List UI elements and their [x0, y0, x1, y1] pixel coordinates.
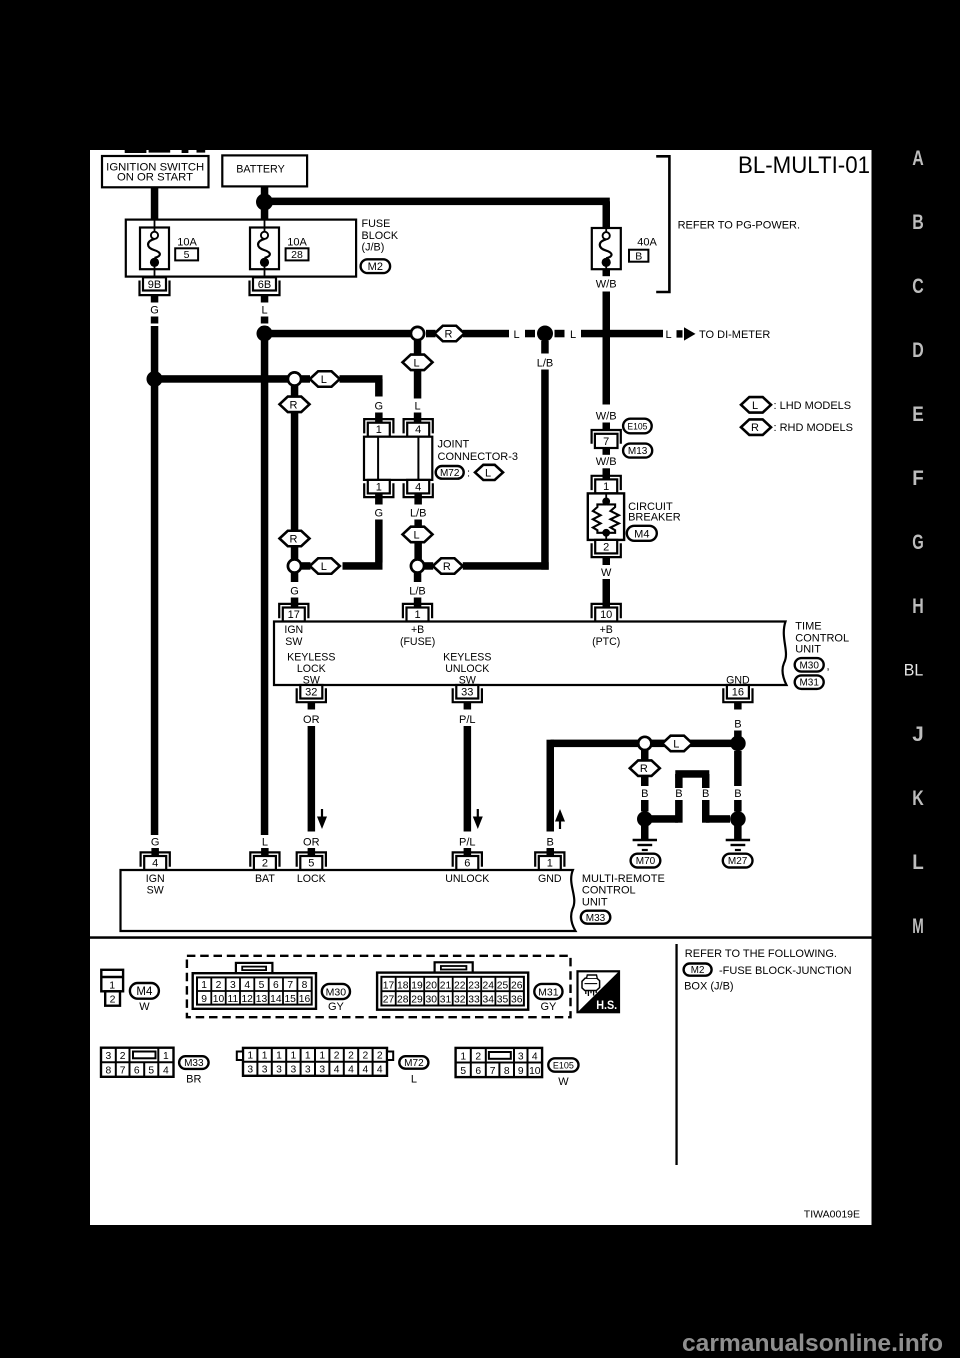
svg-text:13: 13 — [256, 994, 268, 1005]
svg-text:19: 19 — [411, 980, 423, 991]
svg-text:M31: M31 — [799, 678, 819, 689]
svg-text:UNIT: UNIT — [795, 644, 821, 656]
arrow down OR — [317, 809, 327, 829]
svg-text:E: E — [912, 402, 924, 426]
svg-text:3: 3 — [319, 1065, 325, 1076]
hex R gnd — [630, 750, 660, 776]
svg-text:8: 8 — [504, 1066, 510, 1077]
svg-text:35: 35 — [497, 995, 509, 1006]
svg-text:UNLOCK: UNLOCK — [445, 873, 489, 885]
svg-text:M13: M13 — [628, 446, 648, 457]
svg-text:UNLOCK: UNLOCK — [445, 663, 489, 675]
svg-text:L: L — [570, 329, 576, 341]
svg-text:3: 3 — [262, 1065, 268, 1076]
junction G node — [147, 371, 163, 387]
svg-text::: : — [467, 467, 470, 479]
svg-text:L: L — [262, 836, 268, 848]
svg-text:M: M — [912, 914, 924, 938]
fuse 28 10A — [250, 220, 309, 277]
wire RHD bypass left — [291, 386, 299, 560]
connector ref M2 — [361, 259, 391, 273]
wire row battery L to DI-METER — [265, 329, 664, 341]
svg-text:FUSE: FUSE — [362, 218, 391, 230]
svg-text:3: 3 — [230, 980, 236, 991]
wire W to time control unit — [601, 557, 612, 607]
hex L row2 — [310, 371, 340, 387]
svg-text:32: 32 — [305, 687, 317, 699]
svg-text:JOINT: JOINT — [438, 439, 470, 451]
multi-remote control unit pins — [141, 852, 565, 870]
svg-text:10A: 10A — [177, 237, 197, 249]
svg-text:10: 10 — [213, 994, 225, 1005]
circuit breaker pin 2 — [592, 540, 621, 557]
margin index letters — [912, 146, 924, 938]
svg-text:J: J — [912, 722, 924, 746]
fuse 40A B — [592, 228, 658, 269]
junction B node right — [730, 736, 746, 752]
svg-text:G: G — [150, 305, 159, 317]
svg-text:BATTERY: BATTERY — [236, 163, 285, 175]
svg-text:4: 4 — [363, 1065, 369, 1076]
svg-text:MULTI-REMOTE: MULTI-REMOTE — [582, 873, 665, 885]
connector M72 20-pin — [237, 1048, 429, 1086]
fuse block box M2 — [126, 220, 356, 277]
separator line — [90, 936, 872, 939]
hex R bypass bottom — [280, 531, 310, 547]
svg-text:10: 10 — [600, 609, 612, 621]
svg-text:L/B: L/B — [537, 358, 554, 370]
svg-text:IGN: IGN — [284, 624, 303, 636]
svg-text:9: 9 — [201, 994, 207, 1005]
connector M30 16-pin — [193, 963, 350, 1013]
svg-text:3: 3 — [291, 1065, 297, 1076]
svg-text:OR: OR — [303, 836, 320, 848]
svg-text:M4: M4 — [136, 986, 153, 998]
svg-text:M33: M33 — [184, 1058, 204, 1069]
svg-text:L: L — [414, 401, 420, 413]
svg-text:5: 5 — [184, 249, 190, 261]
svg-text:7: 7 — [287, 980, 293, 991]
svg-text:LOCK: LOCK — [297, 663, 326, 675]
hex L gnd — [662, 736, 692, 752]
svg-text:H: H — [912, 594, 924, 618]
wire B from pin 16 — [734, 702, 742, 739]
wire battery feed to 40A fuse — [272, 198, 610, 228]
hex L row3 left — [310, 558, 340, 574]
wire L label bottom — [261, 836, 269, 856]
joint connector-3 M72 pins top — [364, 419, 433, 437]
wire L down from row1 circle — [414, 341, 422, 424]
dashed box harness connectors — [187, 956, 571, 1017]
hex R row1 — [435, 326, 465, 342]
svg-text:34: 34 — [483, 995, 495, 1006]
wire RHD L/B link — [424, 562, 549, 570]
svg-text:L: L — [912, 850, 924, 874]
svg-text:2: 2 — [475, 1051, 481, 1062]
refer to the following text — [684, 948, 852, 993]
multi-remote control unit label — [581, 873, 665, 924]
splice circle row2 — [288, 372, 301, 385]
svg-text:+B: +B — [411, 624, 424, 636]
svg-text:5: 5 — [259, 980, 265, 991]
svg-text:A: A — [912, 146, 924, 170]
joint connector-3 label — [436, 439, 518, 481]
svg-text:+B: +B — [600, 624, 613, 636]
svg-text:23: 23 — [468, 980, 480, 991]
svg-text:6B: 6B — [258, 279, 271, 291]
svg-text:30: 30 — [426, 995, 438, 1006]
wire B bridge — [648, 770, 730, 823]
svg-text:7: 7 — [490, 1066, 496, 1077]
svg-text:4: 4 — [334, 1065, 340, 1076]
multi-remote control unit pin labels — [146, 873, 562, 897]
wire battery to fuse 28 — [261, 208, 269, 221]
svg-text:6: 6 — [273, 980, 279, 991]
svg-text:BR: BR — [186, 1074, 201, 1086]
svg-text:4: 4 — [377, 1065, 383, 1076]
svg-text:W: W — [601, 567, 612, 579]
svg-text:3: 3 — [305, 1065, 311, 1076]
svg-text:M4: M4 — [634, 528, 649, 540]
svg-text:4: 4 — [348, 1065, 354, 1076]
svg-text:29: 29 — [411, 995, 423, 1006]
svg-text:2: 2 — [216, 980, 222, 991]
svg-text:W/B: W/B — [596, 456, 617, 468]
connector M4 cavity diagram — [101, 970, 159, 1013]
svg-text:1: 1 — [414, 609, 420, 621]
svg-text:11: 11 — [227, 994, 238, 1005]
svg-text:1: 1 — [319, 1051, 325, 1062]
svg-text:2: 2 — [334, 1051, 340, 1062]
svg-text:L: L — [261, 305, 267, 317]
svg-text:4: 4 — [163, 1066, 169, 1077]
watermark carmanualsonline.info — [682, 1330, 943, 1357]
svg-text:B: B — [641, 788, 648, 800]
svg-text:-FUSE BLOCK-JUNCTION: -FUSE BLOCK-JUNCTION — [719, 965, 852, 977]
svg-text:GY: GY — [328, 1001, 345, 1013]
hex L below row1 circle — [403, 355, 433, 371]
svg-text:1: 1 — [603, 481, 609, 493]
svg-text:21: 21 — [440, 980, 452, 991]
svg-text:E105: E105 — [553, 1060, 574, 1071]
svg-text:L: L — [321, 561, 327, 573]
svg-text:1: 1 — [201, 980, 207, 991]
hex L above row3 circle — [403, 527, 433, 543]
svg-text:31: 31 — [440, 995, 452, 1006]
svg-text:R: R — [443, 561, 451, 573]
svg-text:P/L: P/L — [459, 714, 476, 726]
splice circle gnd — [638, 737, 651, 750]
joint connector-3 body — [364, 437, 432, 480]
svg-text:carmanualsonline.info: carmanualsonline.info — [682, 1330, 943, 1357]
svg-text:KEYLESS: KEYLESS — [443, 652, 491, 664]
divider vertical line — [675, 944, 677, 1165]
svg-text:OR: OR — [303, 714, 320, 726]
svg-text:: LHD MODELS: : LHD MODELS — [774, 400, 852, 412]
connector M31 20-pin — [377, 962, 562, 1013]
svg-text:16: 16 — [299, 994, 311, 1005]
connector 7 E105 M13 — [592, 419, 653, 458]
svg-text:TIWA0019E: TIWA0019E — [804, 1209, 860, 1221]
svg-text:33: 33 — [461, 687, 473, 699]
svg-text:1: 1 — [247, 1051, 253, 1062]
svg-text:2: 2 — [348, 1051, 354, 1062]
svg-text:L/B: L/B — [410, 508, 427, 520]
svg-text:SW: SW — [285, 636, 302, 648]
svg-text:CONTROL: CONTROL — [582, 885, 636, 897]
splice circle row3 right — [411, 559, 424, 572]
svg-text:TIME: TIME — [795, 620, 821, 632]
svg-text:5: 5 — [308, 857, 314, 869]
svg-text:KEYLESS: KEYLESS — [287, 652, 335, 664]
svg-text:C: C — [912, 274, 924, 298]
svg-text:BL: BL — [904, 662, 924, 680]
svg-text:36: 36 — [511, 995, 523, 1006]
svg-text:4: 4 — [415, 424, 421, 436]
title BL-MULTI-01 — [738, 152, 870, 179]
svg-text:M72: M72 — [440, 468, 460, 479]
wire B ground chain horizontal — [551, 740, 732, 748]
hex R bypass top — [280, 397, 310, 413]
svg-text:4: 4 — [415, 482, 421, 494]
svg-text:2: 2 — [110, 993, 116, 1005]
svg-text:4: 4 — [532, 1051, 538, 1062]
svg-text:7: 7 — [120, 1066, 126, 1077]
wire OR lock — [303, 702, 320, 856]
svg-text:BOX (J/B): BOX (J/B) — [684, 981, 734, 993]
svg-text:1: 1 — [460, 1051, 466, 1062]
svg-text:G: G — [375, 508, 384, 520]
ignition switch box — [102, 156, 209, 187]
svg-text:L: L — [485, 467, 491, 479]
svg-text:32: 32 — [454, 995, 466, 1006]
svg-text:28: 28 — [291, 249, 303, 261]
svg-text:M2: M2 — [691, 965, 705, 976]
svg-text:L: L — [752, 400, 758, 412]
time control unit pin labels — [284, 624, 750, 686]
svg-text:2: 2 — [603, 542, 609, 554]
svg-text:R: R — [751, 422, 759, 434]
svg-text:R: R — [640, 763, 648, 775]
svg-text:REFER TO THE FOLLOWING.: REFER TO THE FOLLOWING. — [685, 948, 837, 960]
svg-text:L: L — [665, 329, 671, 341]
svg-text:TO DI-METER: TO DI-METER — [699, 329, 770, 341]
wire B to multi-remote gnd pin — [547, 740, 555, 857]
svg-text:L: L — [413, 357, 419, 369]
svg-text:F: F — [912, 466, 924, 490]
svg-text:M2: M2 — [368, 261, 383, 273]
svg-text:B: B — [702, 788, 709, 800]
splice circle row1 — [411, 327, 424, 340]
svg-text:M30: M30 — [799, 661, 819, 672]
svg-text:1: 1 — [291, 1051, 297, 1062]
hex R row3 right — [433, 558, 463, 574]
svg-text:R: R — [445, 329, 453, 341]
svg-text:CONNECTOR-3: CONNECTOR-3 — [438, 451, 518, 463]
svg-text:B: B — [675, 788, 682, 800]
svg-text:M27: M27 — [728, 856, 748, 867]
svg-text:(PTC): (PTC) — [592, 636, 620, 648]
svg-text:R: R — [290, 534, 298, 546]
svg-text:L: L — [411, 1074, 417, 1086]
svg-text:SW: SW — [147, 885, 164, 897]
connector M33 8-pin — [101, 1048, 209, 1086]
wire G label bottom — [151, 836, 160, 856]
svg-text:7: 7 — [603, 436, 609, 448]
legend hex L LHD models — [741, 397, 851, 413]
svg-text:20: 20 — [426, 980, 438, 991]
svg-text:B: B — [635, 250, 642, 262]
time control unit box — [274, 622, 787, 686]
time control unit pins top — [279, 604, 621, 622]
svg-text:1: 1 — [547, 857, 553, 869]
svg-text:26: 26 — [511, 980, 523, 991]
splice circle row3 left — [288, 559, 301, 572]
svg-text:2: 2 — [363, 1051, 369, 1062]
circuit breaker pin 1 — [592, 476, 621, 494]
svg-text:B: B — [912, 210, 924, 234]
svg-text:BL-MULTI-01: BL-MULTI-01 — [738, 152, 870, 179]
arrow down P/L — [473, 809, 483, 829]
wire L/B from node down — [537, 341, 554, 566]
svg-text:27: 27 — [383, 995, 395, 1006]
svg-text:W: W — [139, 1001, 150, 1013]
svg-text:17: 17 — [383, 980, 395, 991]
svg-text:1: 1 — [305, 1051, 311, 1062]
svg-text:25: 25 — [497, 980, 509, 991]
svg-text:G: G — [290, 586, 299, 598]
svg-text:M33: M33 — [586, 913, 606, 924]
svg-text:12: 12 — [241, 994, 253, 1005]
svg-text:17: 17 — [288, 609, 300, 621]
bracket refer to pg-power — [656, 156, 800, 292]
joint connector-3 pins bottom — [364, 480, 433, 497]
wire L from fuse 28 — [261, 295, 269, 835]
svg-text:GND: GND — [538, 873, 562, 885]
svg-text:LOCK: LOCK — [297, 873, 326, 885]
arrow up B — [555, 809, 565, 829]
svg-text:2: 2 — [377, 1051, 383, 1062]
arrow to DI-METER — [665, 327, 770, 341]
svg-text:G: G — [912, 530, 924, 554]
wire P/L unlock — [459, 702, 476, 856]
svg-text:22: 22 — [454, 980, 466, 991]
time control unit pins bottom — [297, 685, 753, 702]
svg-text:6: 6 — [134, 1066, 140, 1077]
svg-text:L/B: L/B — [409, 586, 426, 598]
svg-text:2: 2 — [262, 857, 268, 869]
svg-text:M72: M72 — [404, 1058, 424, 1069]
svg-text:6: 6 — [464, 857, 470, 869]
svg-text:M30: M30 — [326, 986, 347, 998]
svg-text:3: 3 — [276, 1065, 282, 1076]
connector E105 10-pin — [456, 1048, 579, 1088]
wire G below joint connector — [301, 493, 383, 569]
svg-text:UNIT: UNIT — [582, 896, 608, 908]
svg-text:1: 1 — [163, 1051, 169, 1062]
wire L/B below joint connector — [410, 493, 427, 559]
svg-text:W/B: W/B — [596, 411, 617, 423]
svg-text:BAT: BAT — [255, 873, 275, 885]
svg-text:1: 1 — [109, 979, 115, 991]
svg-text:GY: GY — [540, 1001, 557, 1013]
wire G from fuse 5 — [150, 295, 159, 835]
svg-text:R: R — [290, 399, 298, 411]
wire B to ground M70 — [641, 776, 649, 812]
legend hex R RHD models — [741, 419, 853, 435]
svg-text:B: B — [547, 836, 554, 848]
wire B to ground M27 — [734, 751, 742, 812]
svg-text:18: 18 — [397, 980, 409, 991]
svg-text:E105: E105 — [627, 421, 647, 432]
svg-text:8: 8 — [302, 980, 308, 991]
svg-text:9B: 9B — [148, 279, 161, 291]
svg-text:D: D — [912, 338, 924, 362]
svg-text:3: 3 — [106, 1051, 112, 1062]
connector 6B — [250, 277, 280, 295]
ground M27 — [723, 811, 753, 867]
svg-text:K: K — [912, 786, 924, 810]
wire W/B to circuit breaker — [596, 448, 617, 480]
svg-text:M70: M70 — [636, 856, 656, 867]
svg-text:G: G — [151, 836, 160, 848]
svg-text:4: 4 — [244, 980, 250, 991]
svg-text:40A: 40A — [637, 237, 657, 249]
svg-text:1: 1 — [376, 482, 382, 494]
battery box — [222, 155, 307, 186]
svg-text:BREAKER: BREAKER — [628, 512, 681, 524]
svg-text:M31: M31 — [538, 986, 559, 998]
svg-text:5: 5 — [148, 1066, 154, 1077]
svg-text:B: B — [734, 718, 741, 730]
svg-text:1: 1 — [376, 424, 382, 436]
wire L/B to pin 1 — [409, 573, 426, 608]
junction battery node — [256, 194, 273, 211]
svg-text:(FUSE): (FUSE) — [400, 636, 435, 648]
figure code TIWA0019E — [804, 1209, 860, 1221]
wire row G to joint connector — [155, 375, 384, 423]
connector 9B — [140, 277, 170, 295]
svg-text:,: , — [826, 661, 829, 673]
wire W/B from 40A fuse — [596, 269, 617, 430]
svg-text:5: 5 — [460, 1066, 466, 1077]
svg-text:L: L — [321, 374, 327, 386]
time control unit label — [795, 620, 849, 689]
svg-text:W: W — [558, 1076, 569, 1088]
svg-text:6: 6 — [475, 1066, 481, 1077]
svg-text:: RHD MODELS: : RHD MODELS — [774, 422, 853, 434]
wire ignition switch to fuse block — [151, 187, 159, 220]
svg-text:1: 1 — [262, 1051, 268, 1062]
svg-text:REFER TO PG-POWER.: REFER TO PG-POWER. — [678, 219, 800, 231]
circuit breaker label — [627, 501, 681, 541]
svg-text:24: 24 — [483, 980, 495, 991]
svg-text:8: 8 — [106, 1066, 112, 1077]
circuit breaker M4 body — [588, 493, 624, 540]
svg-text:L: L — [513, 329, 519, 341]
svg-text:15: 15 — [284, 994, 296, 1005]
svg-text:10A: 10A — [287, 237, 307, 249]
junction L/B node — [537, 326, 553, 342]
svg-text:H.S.: H.S. — [596, 998, 617, 1012]
fuse block label — [362, 218, 399, 254]
svg-text:9: 9 — [518, 1066, 524, 1077]
junction L node — [257, 326, 273, 342]
svg-text:16: 16 — [732, 687, 744, 699]
svg-text:2: 2 — [120, 1051, 126, 1062]
svg-text:10: 10 — [529, 1066, 541, 1077]
svg-text:3: 3 — [247, 1065, 253, 1076]
